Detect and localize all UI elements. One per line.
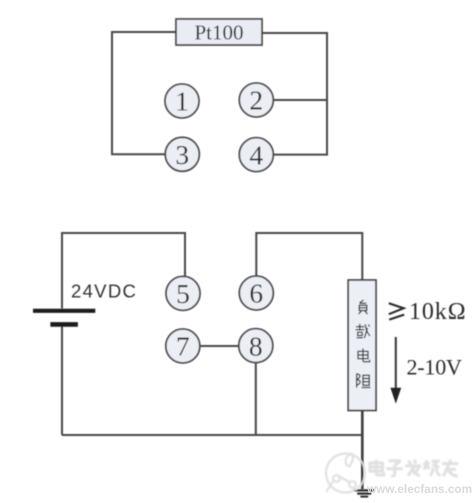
resistor RL load (负载电阻) xyxy=(348,280,376,411)
svg-text:24VDC: 24VDC xyxy=(71,281,137,302)
svg-text:10kΩ: 10kΩ xyxy=(409,299,466,325)
wire: Pt100 left lead down-left loop to terminal 3 xyxy=(112,32,176,154)
char 电 xyxy=(370,460,384,476)
arrow: 2-10V output direction xyxy=(390,337,401,404)
wire: Pt100 right lead down right-side bus xyxy=(262,33,327,155)
wire: load resistor bottom to ground xyxy=(361,411,364,490)
char 子 xyxy=(387,461,403,477)
node 4 (terminal circle 4) xyxy=(239,138,273,172)
resistor Pt100 (RTD sensor) xyxy=(176,19,262,45)
svg-text:www.elecfans.com: www.elecfans.com xyxy=(366,482,472,496)
label 负 (load char 1) xyxy=(359,300,368,314)
ground xyxy=(354,490,375,496)
svg-text:2: 2 xyxy=(249,85,263,116)
label >=10kOhm xyxy=(389,299,467,325)
svg-text:7: 7 xyxy=(176,331,190,362)
char 烧 xyxy=(424,460,441,476)
label 阻 (load char 4) xyxy=(357,374,371,388)
svg-text:4: 4 xyxy=(249,139,263,170)
battery BT1 24VDC positive plate xyxy=(33,309,95,313)
node 1 (terminal circle 1) xyxy=(165,84,199,118)
node 6 (terminal circle 6) xyxy=(239,276,273,310)
node 8 (terminal circle 8) xyxy=(239,329,273,363)
wire: bottom rail xyxy=(62,434,362,436)
svg-text:2-10V: 2-10V xyxy=(407,355,463,380)
label 电 (load char 3) xyxy=(358,348,370,361)
char 发 xyxy=(405,460,421,477)
svg-text:1: 1 xyxy=(175,86,189,117)
wire: battery positive to top rail xyxy=(62,233,185,309)
svg-text:Pt100: Pt100 xyxy=(194,21,243,45)
wire: terminal 2 to right-side bus xyxy=(273,99,327,101)
node 2 (terminal circle 2) xyxy=(239,83,273,117)
svg-text:6: 6 xyxy=(249,278,263,309)
svg-text:8: 8 xyxy=(249,330,263,361)
wire: battery negative down to bottom rail xyxy=(61,327,63,436)
node 7 (terminal circle 7) xyxy=(166,329,200,363)
wire: terminal 7 to terminal 8 xyxy=(200,345,240,347)
wire: terminal 6 up and over to load resistor top xyxy=(256,233,362,281)
node 3 (terminal circle 3) xyxy=(165,137,199,171)
watermark logo circle (elecfans, faint) xyxy=(326,454,365,493)
node 5 (terminal circle 5) xyxy=(166,276,200,310)
battery BT1 24VDC negative plate xyxy=(50,322,78,327)
svg-text:3: 3 xyxy=(175,139,189,170)
watermark text 电子发烧友 (faint) xyxy=(370,460,458,477)
label 载 (load char 2) xyxy=(356,324,370,338)
svg-text:5: 5 xyxy=(176,278,190,309)
wire: terminal 8 down to bottom rail xyxy=(255,362,257,435)
char 友 xyxy=(442,460,458,477)
